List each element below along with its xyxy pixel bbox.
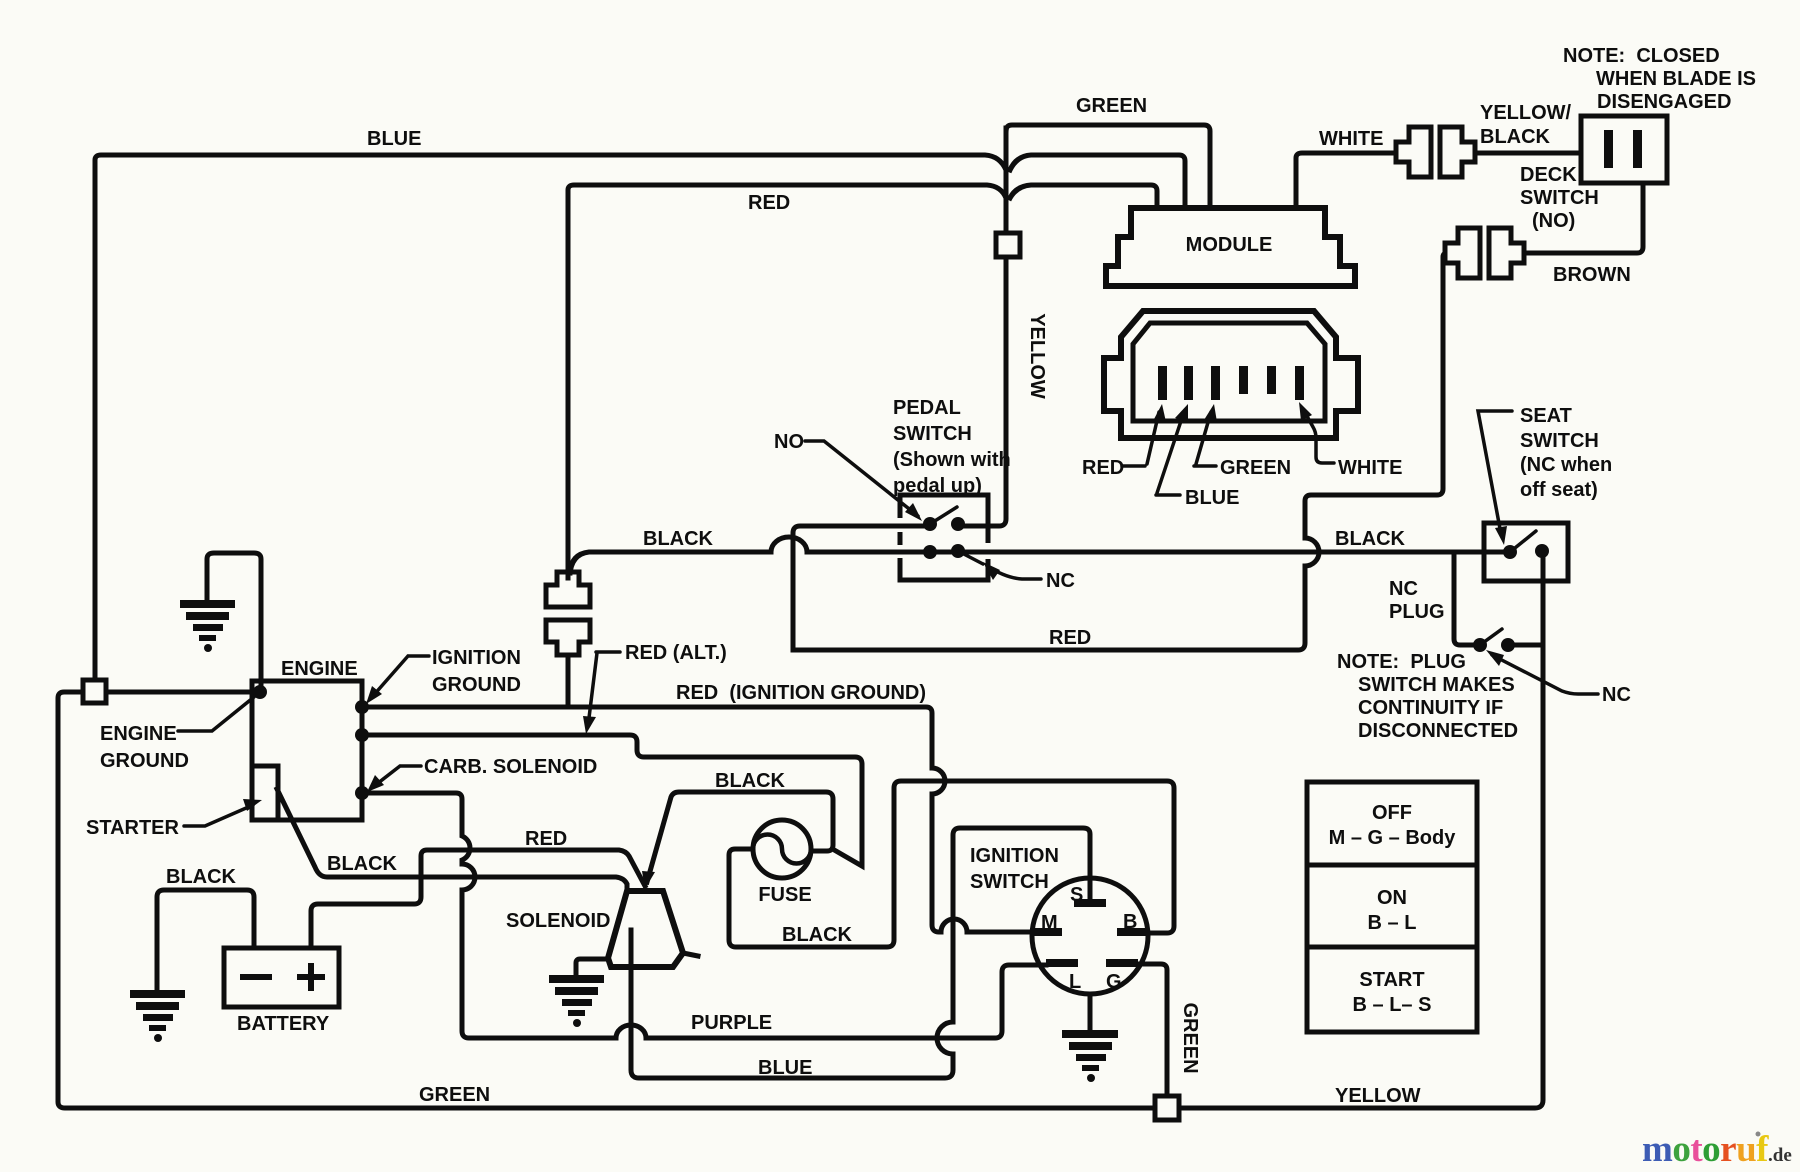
ignition terminal M — [1030, 928, 1062, 936]
node engine ground dot — [253, 685, 267, 699]
connector pin 4 — [1239, 366, 1248, 394]
svg-text:IGNITION: IGNITION — [432, 647, 521, 669]
svg-text:NOTE: CLOSED: NOTE: CLOSED — [1563, 45, 1720, 67]
svg-text:SWITCH: SWITCH — [970, 871, 1049, 893]
wire RED ignition ground — [363, 707, 1031, 932]
connector square (green/yellow bottom) — [1155, 1096, 1179, 1120]
pedal switch contacts — [923, 517, 937, 531]
svg-text:BROWN: BROWN — [1553, 264, 1631, 286]
wire NC plug branch — [1454, 552, 1474, 645]
starter box — [252, 766, 278, 820]
wire engine ground — [207, 553, 261, 686]
wire solenoid S terminal / BLUE — [631, 828, 1090, 1078]
battery minus symbol — [240, 974, 272, 980]
wire brown drop + seat red loop — [793, 253, 1445, 650]
ignition terminal G — [1106, 959, 1138, 967]
engine box — [252, 681, 362, 820]
wire WHITE (module to connector) — [1296, 153, 1394, 208]
wire BLACK fuse to solenoid — [647, 792, 833, 882]
wire yellow right vertical + bottom — [1179, 556, 1543, 1108]
NC plug lever — [1480, 629, 1502, 645]
ignition terminal S — [1074, 899, 1106, 907]
svg-text:L: L — [1069, 971, 1081, 993]
battery box — [224, 948, 339, 1007]
svg-text:(NO): (NO) — [1532, 210, 1575, 232]
svg-text:NOTE: PLUG: NOTE: PLUG — [1337, 651, 1466, 673]
svg-text:RED: RED — [525, 828, 567, 850]
svg-text:YELLOW/: YELLOW/ — [1480, 102, 1572, 124]
svg-text:pedal up): pedal up) — [893, 475, 982, 497]
svg-text:STARTER: STARTER — [86, 817, 180, 839]
svg-text:G: G — [1106, 971, 1122, 993]
svg-text:WHITE: WHITE — [1319, 128, 1383, 150]
svg-text:BLACK: BLACK — [643, 528, 714, 550]
svg-text:GREEN: GREEN — [419, 1084, 490, 1106]
deck switch box — [1581, 116, 1667, 183]
svg-text:NC: NC — [1046, 570, 1075, 592]
ignition switch circle — [1032, 878, 1148, 994]
pedal switch lever NC — [958, 551, 983, 564]
wire BLACK starter cable — [277, 789, 627, 889]
connector plug inner — [1133, 323, 1325, 421]
svg-text:RED: RED — [748, 192, 790, 214]
module (ignition module box) — [1106, 208, 1355, 286]
svg-text:NO: NO — [774, 431, 804, 453]
ignition terminal B — [1117, 928, 1149, 936]
connector square on yellow wire — [996, 233, 1020, 257]
svg-text:RED: RED — [1049, 627, 1091, 649]
svg-text:BLACK: BLACK — [166, 866, 237, 888]
ground symbol (ignition) — [1062, 1030, 1118, 1082]
svg-text:CONTINUITY IF: CONTINUITY IF — [1358, 697, 1503, 719]
ground symbol (solenoid) — [549, 975, 604, 1027]
wire red vertical lower — [566, 655, 571, 707]
wire solenoid ground — [576, 959, 608, 976]
ground symbol (battery) — [130, 990, 185, 1042]
svg-text:B – L– S: B – L– S — [1353, 994, 1432, 1016]
NC plug contacts — [1473, 638, 1487, 652]
svg-text:IGNITION: IGNITION — [970, 845, 1059, 867]
fuse circle — [753, 820, 811, 878]
pedal switch box — [900, 495, 988, 580]
wire white to deck switch — [1477, 151, 1581, 156]
svg-text:BLACK: BLACK — [327, 853, 398, 875]
svg-text:M: M — [1041, 912, 1058, 934]
seat switch lever — [1510, 531, 1536, 552]
svg-text:MODULE: MODULE — [1186, 234, 1273, 256]
svg-text:SWITCH MAKES: SWITCH MAKES — [1358, 674, 1515, 696]
svg-text:WHEN BLADE IS: WHEN BLADE IS — [1596, 68, 1756, 90]
ground symbol (engine) — [180, 600, 235, 652]
svg-text:CARB. SOLENOID: CARB. SOLENOID — [424, 756, 597, 778]
inline connector pair (brown wire) — [1445, 228, 1480, 278]
wire NC plug to yellow vertical — [1513, 643, 1543, 648]
svg-text:B – L: B – L — [1368, 912, 1417, 934]
wire square to engine — [106, 690, 252, 695]
wire YELLOW vertical junction — [1004, 128, 1009, 232]
wire GREEN (top) — [1006, 125, 1210, 208]
fuse S symbol — [753, 835, 811, 864]
svg-text:SWITCH: SWITCH — [893, 423, 972, 445]
node ignition ground dot — [355, 700, 369, 714]
svg-text:GROUND: GROUND — [432, 674, 521, 696]
solenoid body — [608, 891, 683, 967]
svg-text:DECK: DECK — [1520, 164, 1577, 186]
solenoid right terminal tick — [683, 953, 698, 956]
svg-text:BATTERY: BATTERY — [237, 1013, 330, 1035]
svg-text:GROUND: GROUND — [100, 750, 189, 772]
svg-text:ENGINE: ENGINE — [281, 658, 358, 680]
svg-text:BLUE: BLUE — [758, 1057, 812, 1079]
wire battery positive / RED to solenoid — [311, 850, 645, 948]
svg-text:RED: RED — [1082, 457, 1124, 479]
svg-text:BLUE: BLUE — [1185, 487, 1239, 509]
wire ignition ground stem — [1088, 994, 1093, 1030]
svg-text:NC: NC — [1602, 684, 1631, 706]
svg-text:DISCONNECTED: DISCONNECTED — [1358, 720, 1518, 742]
inline connector pair (red vertical) — [546, 572, 590, 607]
seat switch contacts — [1503, 545, 1517, 559]
svg-text:YELLOW: YELLOW — [1026, 313, 1048, 399]
svg-text:PURPLE: PURPLE — [691, 1012, 772, 1034]
ignition terminal L — [1046, 959, 1078, 967]
svg-text:FUSE: FUSE — [758, 884, 811, 906]
wire fuse loop to ignition B — [729, 781, 1174, 947]
wire left border green — [58, 692, 1155, 1108]
node red alt dot — [355, 728, 369, 742]
connector pin 5 — [1267, 366, 1276, 394]
wire deck switch drop — [1526, 183, 1643, 253]
svg-text:RED (ALT.): RED (ALT.) — [625, 642, 727, 664]
svg-text:M – G – Body: M – G – Body — [1329, 827, 1457, 849]
connector plug (6-pin) outer — [1104, 311, 1358, 438]
svg-text:GREEN: GREEN — [1220, 457, 1291, 479]
svg-text:BLACK: BLACK — [1480, 126, 1551, 148]
wire ignition G / GREEN drop — [1140, 964, 1167, 1096]
svg-text:(Shown with: (Shown with — [893, 449, 1011, 471]
connector pin 6 — [1295, 366, 1304, 400]
svg-text:BLACK: BLACK — [782, 924, 853, 946]
svg-text:B: B — [1123, 911, 1137, 933]
wire battery negative — [157, 890, 254, 990]
svg-text:YELLOW: YELLOW — [1335, 1085, 1421, 1107]
svg-text:DISENGAGED: DISENGAGED — [1597, 91, 1731, 113]
svg-text:START: START — [1359, 969, 1424, 991]
connector pin 3 — [1211, 366, 1220, 400]
battery plus symbol — [297, 963, 325, 991]
svg-text:SEAT: SEAT — [1520, 405, 1572, 427]
svg-text:SOLENOID: SOLENOID — [506, 910, 610, 932]
svg-text:NC: NC — [1389, 578, 1418, 600]
connector pin 2 — [1184, 366, 1193, 400]
connector square (blue to engine) — [83, 680, 106, 703]
wire main BLACK (pedal to seat) — [570, 537, 1508, 573]
svg-text:ENGINE: ENGINE — [100, 723, 177, 745]
inline connector pair (white wire) — [1396, 127, 1431, 177]
svg-text:OFF: OFF — [1372, 802, 1412, 824]
wire RED (top horizontal) — [568, 185, 1006, 578]
svg-text:PEDAL: PEDAL — [893, 397, 961, 419]
svg-text:off seat): off seat) — [1520, 479, 1598, 501]
svg-text:BLUE: BLUE — [367, 128, 421, 150]
svg-text:SWITCH: SWITCH — [1520, 187, 1599, 209]
node carb solenoid dot — [355, 786, 369, 800]
wire YELLOW vertical lower — [960, 257, 1006, 526]
svg-text:GREEN: GREEN — [1179, 1002, 1201, 1073]
svg-text:PLUG: PLUG — [1389, 601, 1445, 623]
svg-text:SWITCH: SWITCH — [1520, 430, 1599, 452]
connector pin 1 — [1158, 366, 1167, 400]
svg-text:RED (IGNITION GROUND): RED (IGNITION GROUND) — [676, 682, 926, 704]
svg-text:S: S — [1070, 884, 1083, 906]
wire RED alt — [363, 735, 862, 866]
pedal switch lever NO — [930, 507, 957, 524]
svg-text:BLACK: BLACK — [715, 770, 786, 792]
wire BLUE (top horizontal + left drop) — [95, 155, 1006, 680]
svg-text:ON: ON — [1377, 887, 1407, 909]
wire pedal NO riser — [793, 526, 922, 650]
table key switch positions — [1307, 782, 1477, 1032]
svg-text:BLACK: BLACK — [1335, 528, 1406, 550]
wire carb solenoid / PURPLE to ignition L — [363, 793, 1046, 1038]
svg-text:WHITE: WHITE — [1338, 457, 1402, 479]
seat switch box — [1484, 523, 1568, 581]
svg-text:GREEN: GREEN — [1076, 95, 1147, 117]
svg-text:(NC when: (NC when — [1520, 454, 1612, 476]
